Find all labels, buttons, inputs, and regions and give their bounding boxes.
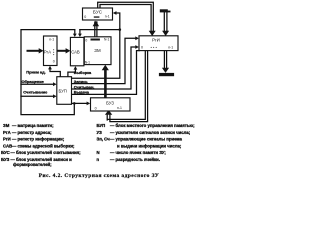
bus: external input to RgI top (double line) bbox=[164, 12, 167, 31]
svg-text:БУП: БУП bbox=[59, 89, 67, 94]
svg-text:— регистр адреса;: — регистр адреса; bbox=[12, 130, 52, 135]
svg-text:0: 0 bbox=[84, 15, 86, 19]
legend right column bbox=[97, 123, 196, 162]
wire: stem into SAV top left bbox=[74, 30, 76, 34]
svg-text:Обращение: Обращение bbox=[22, 79, 45, 84]
arrowhead: into BUS right side (W1) bbox=[113, 11, 117, 15]
svg-text:Прием ад.: Прием ад. bbox=[26, 69, 45, 74]
wire: control line segment to W1 vertical bbox=[80, 29, 120, 31]
svg-text:0: 0 bbox=[53, 59, 55, 63]
terminal bar: data output (below RgI) bbox=[159, 73, 174, 76]
arrowhead: into ZM bottom bbox=[102, 65, 109, 71]
junction dot on W1 at control line bbox=[119, 28, 122, 31]
svg-text:РгА: РгА bbox=[44, 50, 51, 55]
bus: thick data bus BUZ top to ZM bottom bbox=[104, 70, 107, 98]
bus: RgI bottom return to BUZ (double line) bbox=[107, 51, 147, 122]
arrowhead: into BUS bottom from ZM bbox=[93, 21, 100, 27]
bar inside BUS bbox=[94, 16, 100, 17]
arrowhead: into RgA bottom from BU bbox=[48, 66, 52, 70]
block SAV (address selection) bbox=[70, 37, 84, 65]
svg-text:0: 0 bbox=[95, 106, 97, 110]
bus: BUS top to top channel (double line) bbox=[98, 2, 154, 31]
arrowhead: into BU left input 2 bbox=[53, 94, 57, 98]
svg-text:— блок усилителей считывания;: — блок усилителей считывания; bbox=[11, 150, 82, 155]
arrowhead: return bus into BUZ bottom bbox=[105, 110, 112, 115]
svg-text:N: N bbox=[97, 150, 100, 155]
svg-text:n-1: n-1 bbox=[49, 38, 54, 42]
svg-text:УЗ: УЗ bbox=[97, 130, 103, 135]
arrowhead: into UZ left side from BU bbox=[87, 102, 91, 106]
block RgI (data register) bbox=[139, 36, 178, 51]
wire: schityvanie input to BU bbox=[21, 95, 54, 97]
arrowhead: into RgI left input 2 (W3) bbox=[135, 45, 139, 49]
svg-text:ЗМ: ЗМ bbox=[3, 123, 10, 128]
block ZM (storage array) bbox=[84, 37, 111, 65]
svg-text:Выборка: Выборка bbox=[74, 70, 92, 75]
wire: obrashchenie input to BU bbox=[21, 83, 54, 85]
svg-text:РгИ: РгИ bbox=[3, 137, 11, 142]
svg-text:n-1: n-1 bbox=[105, 15, 110, 19]
arrowhead: into SAV top left bbox=[73, 34, 77, 37]
svg-text:и выдачи информации числа;: и выдачи информации числа; bbox=[117, 143, 182, 148]
wire W1: BU right to BUS right input bbox=[72, 13, 120, 78]
legend left column bbox=[1, 123, 81, 167]
wire: BU to UZ left input bbox=[72, 102, 88, 104]
svg-text:0: 0 bbox=[141, 45, 143, 49]
svg-text:— схемы адресной выборки;: — схемы адресной выборки; bbox=[12, 143, 75, 148]
svg-text:формирователей;: формирователей; bbox=[13, 162, 52, 167]
svg-text:РгИ: РгИ bbox=[152, 37, 160, 42]
svg-text:0: 0 bbox=[85, 39, 87, 43]
arrowhead: into BU left input 1 bbox=[53, 82, 57, 86]
wire W3: BU right to RgI left input 2 bbox=[72, 47, 137, 89]
wire: BU top to SAV bottom bbox=[68, 70, 76, 77]
svg-text:БУЗ: БУЗ bbox=[106, 100, 114, 105]
svg-text:n: n bbox=[97, 157, 100, 162]
wire: BU top to RgA bottom bbox=[50, 70, 60, 77]
svg-text:Выдача: Выдача bbox=[74, 90, 90, 95]
arrow: SAV to ZM (head only) bbox=[85, 48, 89, 53]
block RgA (address register) bbox=[44, 36, 58, 66]
svg-text:САВ: САВ bbox=[3, 143, 12, 148]
dots inside RgA bbox=[53, 49, 54, 50]
svg-text:САВ: САВ bbox=[71, 50, 80, 55]
wire W4: BU right to RgI bottom corner bbox=[72, 51, 140, 95]
svg-text:N-1: N-1 bbox=[85, 60, 90, 64]
svg-text:— число ячеек памяти ЗУ;: — число ячеек памяти ЗУ; bbox=[110, 150, 166, 155]
arrowhead: RgI output terminal bbox=[162, 68, 169, 73]
arrow: RgA to SAV (thick) bbox=[57, 50, 67, 52]
block BUZ (write amplifiers) bbox=[91, 98, 131, 111]
svg-text:БУП: БУП bbox=[97, 123, 106, 128]
svg-text:Считыван.: Считыван. bbox=[74, 84, 95, 89]
bar inside ZM top bbox=[91, 39, 100, 41]
wire: loop from BU around left side to SAV top bbox=[21, 30, 75, 115]
arrow: address input to RgA (thick) bbox=[27, 50, 40, 52]
svg-text:БУС: БУС bbox=[1, 150, 10, 155]
terminal bar: external input (top right) bbox=[160, 9, 168, 12]
svg-text:— разрядность ячейки.: — разрядность ячейки. bbox=[110, 157, 160, 162]
wire W2: BU right to RgI left input 1 bbox=[72, 38, 137, 83]
svg-text:— регистр информации;: — регистр информации; bbox=[12, 137, 65, 142]
svg-text:— блок местного управления пам: — блок местного управления памятью; bbox=[110, 123, 195, 128]
svg-text:Зп, Сч: Зп, Сч bbox=[97, 137, 111, 142]
svg-text:N-1: N-1 bbox=[104, 38, 109, 42]
svg-text:ЗМ: ЗМ bbox=[94, 48, 101, 53]
svg-text:Рис. 4.2. Структурная схема ад: Рис. 4.2. Структурная схема адресного ЗУ bbox=[39, 173, 159, 179]
svg-text:— управляющие сигналы приема: — управляющие сигналы приема bbox=[110, 137, 183, 142]
svg-text:Запись: Запись bbox=[74, 79, 89, 84]
svg-text:— усилители сигналов записи чи: — усилители сигналов записи числа; bbox=[110, 130, 191, 135]
dots inside RgI bbox=[151, 47, 152, 48]
svg-text:РгА: РгА bbox=[3, 130, 11, 135]
wire: stem into SAV top right bbox=[79, 30, 81, 34]
svg-text:БУЗ: БУЗ bbox=[1, 157, 10, 162]
svg-text:— матрица памяти;: — матрица памяти; bbox=[12, 123, 54, 128]
arrowhead: into RgI left input 1 (W2) bbox=[135, 36, 139, 40]
svg-text:БУС: БУС bbox=[93, 9, 103, 14]
arrowhead: into RgI top from BUS channel bbox=[149, 31, 156, 36]
arrowhead: into RgI top from external input bbox=[162, 31, 169, 36]
arrowhead: into SAV bottom from BU bbox=[74, 66, 78, 70]
bus: ZM top to BUS bottom (double line) bbox=[95, 22, 97, 37]
svg-text:n-1: n-1 bbox=[168, 45, 173, 49]
block BU (control unit) bbox=[57, 77, 72, 105]
junction dot at BU-UZ wire branch bbox=[73, 102, 76, 105]
arrowhead: into SAV top right bbox=[78, 34, 82, 37]
bus: RgI bottom to output terminal (double line) bbox=[164, 51, 166, 69]
block BUS U1 (sense amplifiers) bbox=[83, 8, 113, 20]
svg-text:Считывание: Считывание bbox=[23, 89, 48, 94]
svg-text:n-1: n-1 bbox=[117, 106, 122, 110]
